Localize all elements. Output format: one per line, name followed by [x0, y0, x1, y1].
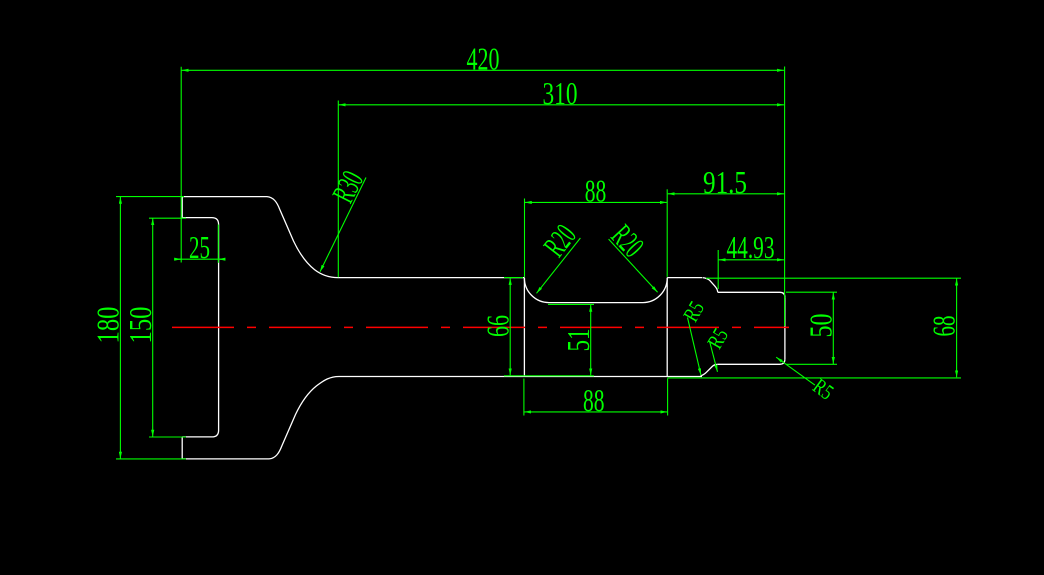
dim 420 left extension line: [180, 67, 182, 263]
shaft top edge right of groove: [667, 277, 702, 279]
dim 88 bottom left extension line: [523, 379, 525, 416]
flange recess: top step, inner wall, bottom step: [182, 218, 218, 437]
svg-text:420: 420: [467, 42, 500, 77]
svg-text:180: 180: [90, 307, 125, 344]
dim 88 bottom right extension line: [667, 379, 669, 416]
dim 51 line: [590, 305, 592, 376]
dim 180 top extension line: [116, 196, 184, 198]
svg-text:51: 51: [561, 329, 596, 352]
dim 44.93 line: [719, 259, 784, 261]
top right chamfer with R5 fillets: [703, 278, 718, 293]
dim 25 right extension line: [217, 225, 219, 263]
dim 310 left extension line: [337, 101, 339, 278]
dim 180 line: [119, 197, 121, 459]
dim 50 bottom extension line: [786, 363, 837, 365]
part outline: lower R30 transition and flange bottom face: [182, 377, 702, 459]
leader R20 right: [609, 239, 658, 292]
svg-text:50: 50: [804, 314, 839, 338]
dim 25 outside arrows: [174, 258, 181, 260]
svg-text:150: 150: [123, 307, 158, 344]
dim 310 line: [339, 104, 784, 106]
dim 50 line: [832, 293, 834, 365]
dim 91.5 left extension line: [666, 189, 668, 276]
dim 420/310/91.5/44.93 right extension line: [784, 67, 786, 327]
svg-text:310: 310: [543, 76, 578, 111]
dim 420 line: [182, 69, 784, 71]
50-section bottom edge: [718, 359, 785, 364]
flange left lip bottom face: [181, 437, 183, 459]
svg-text:68: 68: [927, 316, 962, 337]
dim 180 bottom extension line: [116, 458, 186, 460]
red centerline: [172, 326, 789, 328]
dim 68 line: [956, 279, 958, 378]
svg-text:91.5: 91.5: [703, 165, 747, 200]
dim 68 top extension line: [706, 277, 961, 279]
svg-text:88: 88: [585, 174, 607, 209]
svg-text:88: 88: [583, 383, 605, 418]
flange left lip top face: [181, 197, 183, 218]
dim 66 line: [509, 278, 511, 376]
dim 150 top extension line: [149, 217, 186, 219]
dim 66 top extension line: [504, 277, 523, 279]
leader R5 second: [710, 341, 718, 372]
groove profile with R20 fillets: [524, 278, 667, 303]
dim 150 bottom extension line: [149, 436, 186, 438]
right end face: [784, 297, 786, 359]
dim 88 top left extension line: [524, 199, 526, 278]
dim 88 top line: [525, 201, 667, 203]
50-section top edge: [718, 292, 785, 297]
leader R5 first: [688, 318, 702, 376]
dim 66/51 bottom extension line: [504, 375, 594, 377]
bottom right chamfer with R5 fillets: [701, 364, 718, 376]
part outline: left flange top face and upper R30 transition to shaft: [182, 197, 785, 459]
svg-text:66: 66: [481, 315, 516, 337]
dim 51 top extension line: [548, 303, 594, 305]
dim 91.5 line: [668, 193, 784, 195]
svg-text:25: 25: [189, 230, 210, 265]
leader R20 left: [537, 238, 581, 293]
svg-text:44.93: 44.93: [727, 230, 775, 265]
groove right wall section line: [666, 278, 668, 377]
groove left wall section line: [523, 278, 525, 377]
dim 68 bottom extension line: [668, 377, 962, 379]
leader R5 bottom right: [776, 357, 815, 385]
dim 25 line: [176, 258, 225, 260]
dim 88 bottom line: [524, 411, 667, 413]
leader R30: [320, 178, 366, 272]
dim 44.93 left extension line: [717, 250, 719, 289]
dim 150 line: [152, 218, 154, 437]
dim 50 top extension line: [786, 291, 837, 293]
